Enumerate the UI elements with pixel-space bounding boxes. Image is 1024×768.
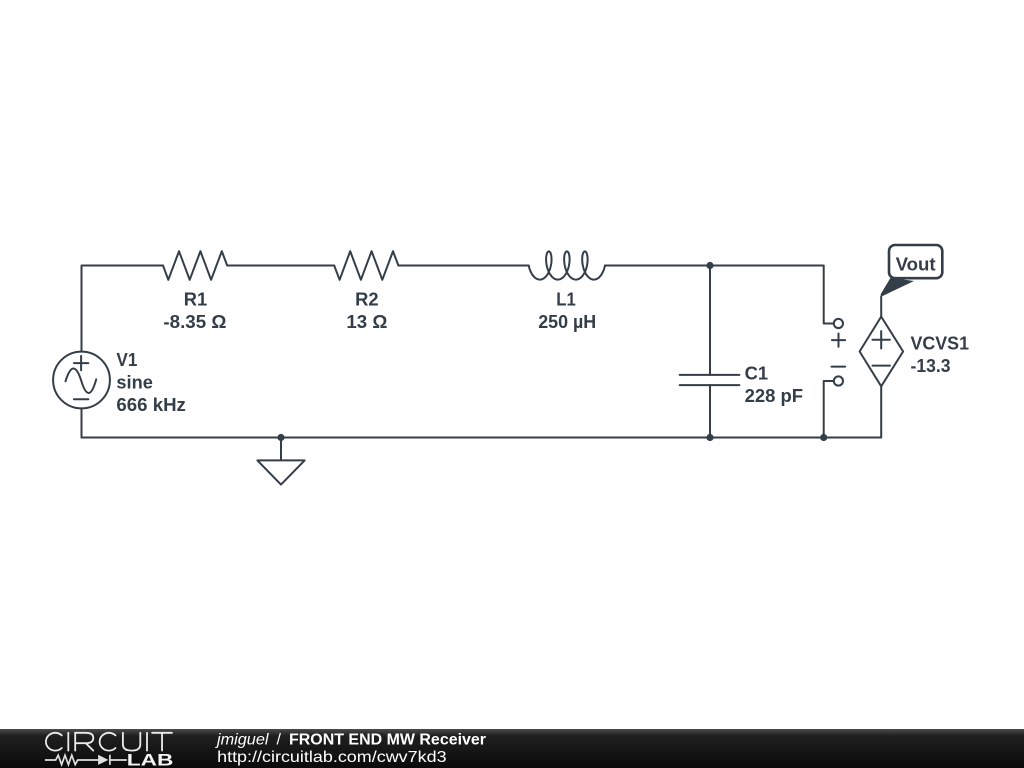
logo diode bar and wire	[110, 755, 127, 765]
V1 plus mark	[74, 356, 88, 370]
logo letter U	[123, 733, 140, 751]
VCVS1 plus mark	[873, 331, 890, 348]
ground stub wire	[280, 438, 282, 461]
wire VCVS bottom to rail	[880, 386, 882, 437]
wire C1 top stub	[709, 266, 711, 375]
svg-text:http://circuitlab.com/cwv7kd3: http://circuitlab.com/cwv7kd3	[217, 749, 447, 766]
wire R2 to L1	[399, 265, 529, 267]
wire C1 bottom stub	[709, 385, 711, 437]
wire V1 bottom stub	[81, 408, 83, 437]
wire top rail V1 to R1	[82, 266, 164, 352]
ground symbol	[257, 460, 304, 484]
VCVS1 minus mark	[873, 365, 890, 367]
terminal - circle	[834, 376, 843, 385]
voltage source V1 circle	[53, 352, 110, 409]
wire L1 to output corner	[605, 266, 834, 324]
terminal - mark	[832, 366, 846, 368]
VCVS1 diamond	[860, 317, 904, 387]
logo letter I	[67, 733, 69, 751]
wire R1 to R2	[227, 265, 334, 267]
terminal + mark	[832, 334, 845, 347]
Vout flag pointer	[881, 278, 915, 297]
junction top node	[706, 262, 713, 269]
node Vout flag box	[889, 245, 942, 278]
resistor R2	[334, 251, 398, 280]
logo resistor zigzag	[45, 755, 98, 764]
svg-text:jmiguel: jmiguel	[215, 731, 269, 748]
wire terminal - to bottom rail	[824, 381, 834, 438]
junction ground	[277, 434, 284, 441]
junction C1 bottom	[706, 434, 713, 441]
inductor L1	[529, 251, 605, 279]
footer bar	[0, 729, 1024, 768]
svg-text:FRONT END MW Receiver: FRONT END MW Receiver	[289, 731, 486, 748]
logo letter C2	[100, 733, 116, 751]
logo diode triangle	[98, 755, 108, 765]
wire Vout stub to VCVS	[880, 297, 882, 317]
logo letter R	[75, 733, 93, 751]
V1 minus mark	[74, 398, 88, 400]
wire bottom rail	[82, 437, 882, 439]
junction output bottom	[820, 434, 827, 441]
svg-text:LAB: LAB	[127, 751, 174, 768]
V1 sine wave	[66, 368, 97, 392]
svg-text:/: /	[277, 731, 282, 748]
logo letter I2	[146, 733, 148, 751]
logo letter C	[46, 733, 62, 751]
terminal + circle	[834, 319, 843, 328]
capacitor C1	[680, 375, 740, 385]
resistor R1	[163, 251, 227, 280]
logo letter T	[152, 733, 172, 751]
